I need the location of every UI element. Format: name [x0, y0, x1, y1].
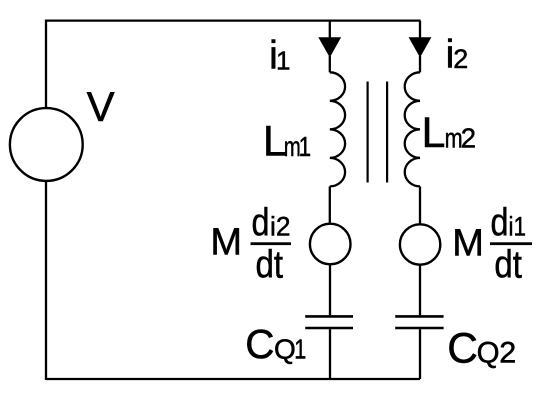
svg-text:L: L — [422, 109, 446, 157]
svg-text:d: d — [252, 202, 270, 245]
svg-text:1: 1 — [276, 46, 290, 76]
transformer core line left — [367, 82, 369, 183]
svg-text:d: d — [491, 202, 509, 245]
wire: Lm2 to source — [419, 186, 421, 224]
svg-text:dt: dt — [256, 244, 284, 287]
wire: left vertical lower — [45, 181, 47, 380]
svg-text:C: C — [245, 321, 274, 367]
svg-text:2: 2 — [499, 337, 516, 370]
wire: CQ1 to bottom — [329, 329, 331, 379]
current arrow i1 — [318, 37, 341, 57]
wire: top horizontal — [46, 19, 421, 21]
svg-text:1: 1 — [294, 333, 306, 364]
svg-text:i2: i2 — [270, 212, 291, 242]
voltage source V1 — [10, 108, 83, 181]
wire: right branch top drop — [419, 21, 421, 39]
capacitor CQ2 — [395, 315, 443, 318]
wire: below arrow i1 — [329, 56, 331, 72]
svg-text:V: V — [87, 83, 115, 130]
wire: source to capacitor CQ1 — [329, 264, 331, 315]
svg-text:Q: Q — [274, 333, 296, 364]
svg-text:Q: Q — [477, 337, 500, 370]
inductor Lm1 — [330, 72, 345, 186]
svg-text:C: C — [447, 325, 478, 372]
dependent source M di1/dt — [400, 224, 440, 264]
svg-text:2: 2 — [461, 122, 476, 153]
wire: bottom horizontal — [46, 378, 420, 380]
svg-text:M: M — [452, 222, 484, 264]
wire: Lm1 to source — [329, 186, 331, 223]
svg-text:i1: i1 — [509, 212, 527, 242]
capacitor CQ1 — [305, 315, 353, 318]
svg-text:dt: dt — [494, 244, 522, 287]
wire: CQ2 to bottom — [419, 329, 421, 379]
wire: source to capacitor CQ2 — [419, 265, 421, 316]
svg-text:2: 2 — [453, 44, 468, 74]
svg-text:M: M — [210, 221, 242, 263]
wire: left vertical upper — [45, 20, 47, 109]
inductor Lm2 — [405, 72, 420, 186]
wire: left branch top drop — [329, 21, 331, 39]
dependent source M di2/dt — [310, 224, 351, 265]
svg-text:1: 1 — [299, 131, 312, 162]
transformer core line right — [386, 82, 388, 183]
fraction bar left — [251, 242, 292, 245]
wire: below arrow i2 — [419, 56, 421, 72]
current arrow i2 — [409, 37, 432, 57]
fraction bar right — [490, 242, 532, 245]
